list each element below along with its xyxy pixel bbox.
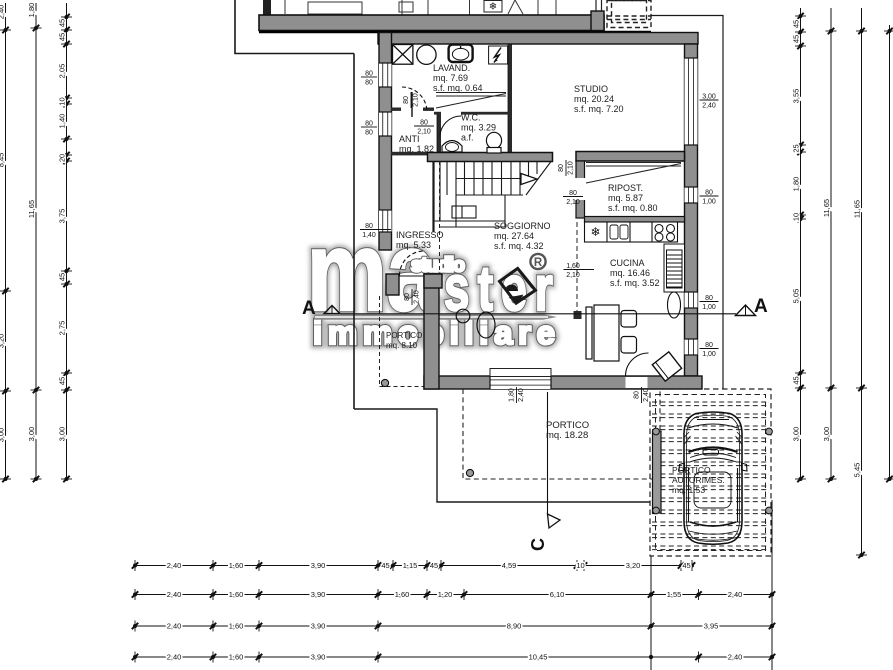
dim connector line x772 (771, 500, 773, 670)
porch door leaf tilted (652, 352, 681, 381)
svg-text:80: 80 (420, 120, 428, 127)
svg-text:45: 45 (791, 376, 800, 384)
dining table (586, 305, 637, 361)
svg-text:2,10: 2,10 (568, 161, 575, 175)
wall stair landing wall (428, 153, 553, 162)
svg-text:2,40: 2,40 (167, 590, 182, 599)
svg-text:2,10: 2,10 (417, 129, 431, 136)
dim label left win2 (361, 121, 377, 137)
svg-text:1,40: 1,40 (57, 114, 66, 129)
svg-text:45: 45 (381, 561, 389, 570)
svg-text:45: 45 (791, 35, 800, 43)
window left window 2 (379, 112, 392, 136)
svg-text:1,40: 1,40 (362, 232, 376, 239)
room label CUCINA (610, 258, 660, 288)
antenna lines (596, 0, 602, 12)
watermark logo (307, 210, 561, 351)
dim label right win2 dim (700, 190, 719, 206)
svg-text:mq. 3.29: mq. 3.29 (461, 123, 496, 133)
svg-text:45: 45 (57, 377, 66, 385)
toilet (486, 132, 501, 153)
svg-text:25: 25 (791, 144, 800, 152)
svg-text:1,60: 1,60 (229, 590, 244, 599)
svg-text:10: 10 (791, 213, 800, 221)
svg-text:10: 10 (57, 97, 66, 105)
upper floor freezer box (484, 1, 502, 13)
svg-text:1,20: 1,20 (438, 590, 453, 599)
dim label ripost door (563, 190, 583, 206)
ripost diagonal (586, 163, 681, 184)
svg-text:45: 45 (791, 20, 800, 28)
svg-text:8,90: 8,90 (507, 621, 522, 630)
carport corner dots (653, 428, 773, 514)
anti bottom wall (391, 152, 427, 156)
room label ANTI (399, 134, 434, 154)
dimension line left B (27, 3, 42, 483)
watermark underline bar (314, 314, 557, 320)
svg-text:1,00: 1,00 (702, 199, 716, 206)
svg-text:1,00: 1,00 (702, 351, 716, 358)
svg-text:LAVAND.: LAVAND. (433, 63, 470, 73)
neighbour unit outline (235, 0, 354, 409)
window right window 2 (685, 187, 698, 203)
svg-text:80: 80 (558, 164, 565, 172)
wall lavanderia divider (508, 44, 512, 154)
svg-text:8,45: 8,45 (0, 153, 5, 168)
svg-text:s.f. mq. 3.52: s.f. mq. 3.52 (610, 278, 660, 288)
wc sink (442, 141, 462, 153)
cucina divider dashed (576, 222, 578, 312)
room label LAVAND (433, 63, 483, 93)
svg-text:mq. 18.28: mq. 18.28 (546, 430, 588, 441)
svg-text:20: 20 (57, 154, 66, 162)
wall lower left wall (424, 274, 439, 389)
wall upper floor band (259, 15, 604, 31)
watermark R (530, 254, 545, 269)
svg-text:6,10: 6,10 (550, 590, 565, 599)
svg-text:3,75: 3,75 (57, 209, 66, 224)
svg-text:11,65: 11,65 (27, 200, 36, 218)
section line C (528, 392, 560, 551)
svg-text:2,40: 2,40 (414, 290, 421, 304)
svg-text:3,00: 3,00 (27, 427, 36, 442)
wall ripost left wall (576, 161, 585, 218)
wall exterior left (379, 33, 392, 251)
svg-text:1,80: 1,80 (509, 388, 516, 402)
washing machine (393, 45, 413, 65)
svg-text:❄: ❄ (590, 225, 600, 239)
svg-text:3,90: 3,90 (311, 561, 326, 570)
svg-text:80: 80 (705, 190, 713, 197)
anti top wall (391, 108, 434, 111)
room label PORTICO (546, 420, 589, 441)
sofa circle (456, 309, 470, 323)
car (679, 412, 747, 544)
svg-text:80: 80 (404, 293, 411, 301)
dim connector line x651 (650, 556, 652, 670)
section marker A right (736, 296, 769, 317)
svg-text:3,20: 3,20 (626, 561, 641, 570)
wc door arc (440, 116, 461, 137)
wash basin (449, 45, 473, 63)
plant ellipse (477, 312, 495, 338)
dim label right win3 dim (700, 295, 719, 311)
wall exterior bottom (424, 376, 702, 389)
svg-text:45: 45 (57, 19, 66, 27)
svg-text:2,40: 2,40 (728, 652, 743, 661)
svg-text:1,60: 1,60 (566, 263, 580, 270)
svg-text:3,00: 3,00 (791, 427, 800, 442)
svg-text:mq. 7.69: mq. 7.69 (433, 73, 468, 83)
svg-text:R: R (534, 257, 543, 269)
window right window 4 (685, 339, 698, 355)
divider stub (574, 311, 582, 319)
svg-text:3,90: 3,90 (311, 590, 326, 599)
carport hatch area (650, 389, 771, 556)
lot boundary top right (651, 16, 723, 390)
porch column dot 2 (466, 469, 473, 476)
svg-text:3,95: 3,95 (704, 621, 719, 630)
dimension line left A (0, 3, 11, 482)
svg-text:3,00: 3,00 (822, 427, 831, 442)
kitchen right counter (664, 244, 685, 292)
svg-text:mq. 8.10: mq. 8.10 (386, 341, 418, 350)
svg-text:45: 45 (430, 561, 438, 570)
wall exterior top (378, 33, 698, 45)
svg-text:❄: ❄ (489, 2, 497, 13)
window bottom window (490, 376, 551, 389)
window left window 1 (379, 63, 392, 87)
dim label stair door (558, 160, 575, 176)
svg-text:80: 80 (705, 295, 713, 302)
svg-text:80: 80 (365, 121, 373, 128)
dim label right win4 dim (700, 342, 719, 358)
band bottom edge (259, 31, 651, 34)
section line A-A (341, 313, 736, 315)
paving boundary line (354, 409, 650, 502)
svg-text:CUCINA: CUCINA (610, 258, 645, 268)
dim label wc door (414, 120, 434, 136)
wall entrance pillar (386, 274, 399, 295)
dimension line bottom 1 (132, 560, 695, 571)
svg-text:1,60: 1,60 (229, 621, 244, 630)
room label RIPOST (608, 183, 658, 213)
svg-text:s.f. mq. 0.80: s.f. mq. 0.80 (608, 203, 658, 213)
entrance door arc (400, 251, 425, 276)
svg-text:2,10: 2,10 (566, 199, 580, 206)
anti door leaf (411, 92, 413, 117)
dim label anti door (403, 92, 420, 108)
svg-text:AUTORIMES.: AUTORIMES. (672, 475, 725, 485)
dimension line left C (57, 3, 72, 482)
svg-text:10,45: 10,45 (529, 652, 548, 661)
svg-text:mq. 5.33: mq. 5.33 (396, 240, 431, 250)
svg-text:s.f. mq. 0.64: s.f. mq. 0.64 (433, 83, 483, 93)
svg-text:80: 80 (365, 71, 373, 78)
svg-text:3,20: 3,20 (0, 334, 5, 349)
junction dots (649, 592, 774, 659)
stairs (434, 162, 552, 233)
svg-text:10: 10 (576, 561, 584, 570)
window studio window (685, 58, 698, 145)
room label SOGGIORNO (494, 221, 551, 251)
electrical panel (489, 46, 508, 64)
svg-text:C: C (528, 538, 548, 551)
watermark diamond over e (500, 268, 536, 303)
upper floor left wall (263, 0, 271, 16)
svg-text:2,10: 2,10 (413, 93, 420, 107)
svg-text:45: 45 (57, 33, 66, 41)
upper floor interior strip (285, 0, 556, 15)
svg-text:80: 80 (403, 96, 410, 104)
svg-text:1,60: 1,60 (229, 561, 244, 570)
svg-text:80: 80 (705, 342, 713, 349)
balcony hatch square (607, 1, 651, 28)
svg-text:80: 80 (569, 190, 577, 197)
dimension line right B (822, 8, 837, 482)
section marker A left (302, 298, 340, 319)
anti door arc (402, 87, 427, 112)
window right window 3 (685, 292, 698, 308)
dim label bottom window dim (509, 387, 526, 403)
dimension line right A (791, 8, 806, 482)
wall entrance corner (424, 274, 442, 288)
svg-text:2,40: 2,40 (518, 388, 525, 402)
dimension line bottom 3 (132, 621, 775, 632)
svg-text:s.f. mq. 7.20: s.f. mq. 7.20 (574, 104, 624, 114)
dimension line bottom 4 (132, 652, 775, 663)
dim label left win1 (361, 71, 377, 87)
dimension line right C (852, 8, 867, 558)
svg-text:mq. 16.46: mq. 16.46 (610, 268, 650, 278)
room label WC (461, 113, 496, 143)
svg-text:1,55: 1,55 (667, 590, 682, 599)
dim label studio window dim (700, 94, 719, 110)
svg-text:mq. 27.64: mq. 27.64 (494, 231, 534, 241)
window sill (490, 369, 551, 377)
svg-text:3,00: 3,00 (57, 427, 66, 442)
svg-text:studio: studio (411, 255, 465, 277)
svg-text:3,00: 3,00 (0, 428, 5, 443)
svg-text:1,60: 1,60 (395, 590, 410, 599)
svg-text:1,80: 1,80 (27, 3, 36, 18)
svg-text:a.f.: a.f. (461, 133, 474, 143)
svg-text:2,10: 2,10 (566, 272, 580, 279)
room label INGRESSO (396, 230, 444, 250)
svg-text:5,45: 5,45 (852, 463, 861, 478)
kitchen counter (585, 222, 678, 242)
small porch dashed edge (380, 296, 430, 387)
svg-text:s.f. mq. 4.32: s.f. mq. 4.32 (494, 241, 544, 251)
svg-text:STUDIO: STUDIO (574, 84, 608, 94)
hob burners (655, 225, 675, 242)
svg-text:80: 80 (365, 80, 373, 87)
svg-text:RIPOST.: RIPOST. (608, 183, 643, 193)
svg-text:1,60: 1,60 (229, 652, 244, 661)
svg-text:2,40: 2,40 (167, 621, 182, 630)
svg-text:3,00: 3,00 (702, 94, 716, 101)
svg-text:2,40: 2,40 (167, 561, 182, 570)
svg-text:A: A (754, 296, 768, 317)
svg-text:80: 80 (365, 223, 373, 230)
laundry basin (417, 45, 436, 64)
ripost door gap (575, 178, 586, 200)
svg-text:1,00: 1,00 (702, 304, 716, 311)
dim label entrance door dim (404, 289, 421, 305)
svg-text:2,40: 2,40 (167, 652, 182, 661)
svg-text:3,55: 3,55 (791, 89, 800, 104)
wall studio bottom wall (576, 152, 685, 162)
svg-text:45: 45 (682, 561, 690, 570)
sloped element above wc (436, 93, 506, 109)
big porch dashed outline (463, 389, 660, 479)
dim label cucina dim (564, 263, 595, 279)
wall carport side wall (653, 431, 662, 513)
wall ripost bottom wall (585, 217, 685, 223)
ingresso dashed line (439, 161, 441, 274)
svg-text:11,65: 11,65 (822, 199, 831, 217)
porch door opening (626, 377, 648, 388)
svg-text:mq. 1.82: mq. 1.82 (399, 144, 434, 154)
svg-text:2,40: 2,40 (728, 590, 743, 599)
svg-text:3,90: 3,90 (311, 652, 326, 661)
svg-text:PORTICO: PORTICO (672, 465, 711, 475)
svg-text:2,40: 2,40 (643, 388, 650, 402)
svg-text:80: 80 (365, 130, 373, 137)
svg-text:3,90: 3,90 (311, 621, 326, 630)
svg-text:SOGGIORNO: SOGGIORNO (494, 221, 551, 231)
wall wc left wall (437, 113, 441, 152)
svg-text:mq. 20.24: mq. 20.24 (574, 94, 614, 104)
svg-text:80: 80 (634, 391, 641, 399)
svg-text:4,59: 4,59 (502, 561, 517, 570)
svg-text:W.C.: W.C. (461, 113, 481, 123)
svg-text:A: A (302, 298, 316, 319)
svg-text:2,05: 2,05 (57, 64, 66, 79)
room label PORTICO small (386, 331, 422, 350)
svg-text:PORTICO: PORTICO (386, 331, 422, 340)
svg-text:1,15: 1,15 (403, 561, 418, 570)
wc top wall (434, 112, 509, 115)
porch door arc (626, 353, 649, 376)
dim label ingresso win (360, 223, 391, 239)
svg-text:ANTI: ANTI (399, 134, 420, 144)
room label AUTORIMESSA (672, 465, 725, 495)
room label STUDIO (574, 84, 624, 114)
dim label porch door dim (634, 387, 651, 403)
wall band step (591, 11, 604, 31)
wall exterior right (685, 44, 698, 376)
svg-text:5,05: 5,05 (791, 289, 800, 304)
sink bowls (610, 225, 628, 239)
pantry ladder (667, 250, 683, 288)
window left window 3 (379, 210, 392, 232)
kitchen sink right (668, 292, 681, 318)
svg-text:2,75: 2,75 (57, 321, 66, 336)
upper floor door leaf (508, 0, 523, 14)
svg-text:2,40: 2,40 (702, 103, 716, 110)
porch column dot 1 (381, 379, 388, 386)
svg-text:11,65: 11,65 (852, 200, 861, 218)
svg-text:45: 45 (57, 273, 66, 281)
svg-text:2,40: 2,40 (0, 5, 5, 20)
dimension line bottom 2 (132, 589, 775, 600)
svg-text:1,80: 1,80 (791, 177, 800, 192)
stairs arrow (521, 174, 537, 185)
svg-text:INGRESSO: INGRESSO (396, 230, 444, 240)
svg-text:mq. 5.87: mq. 5.87 (608, 193, 643, 203)
dimension line right D (884, 25, 893, 482)
